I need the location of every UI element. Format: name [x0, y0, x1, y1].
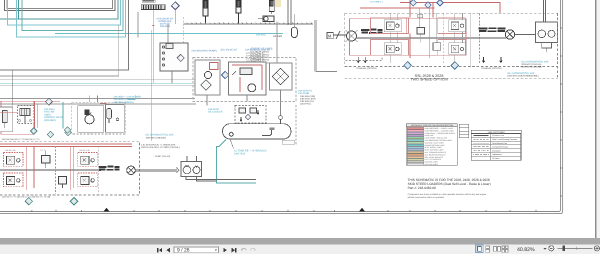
valve assembly V1 hatched body — [141, 5, 165, 10]
svg-text:TO PUMP (~): TO PUMP (~) — [370, 1, 383, 4]
svg-text:Drain/Return Line: Drain/Return Line — [492, 142, 507, 145]
svg-text:24B-3WL (HL): 24B-3WL (HL) — [300, 100, 314, 103]
MV1 spool rect — [240, 68, 252, 75]
svg-text:LINE PATTERNS: LINE PATTERNS — [488, 131, 505, 134]
pilot valve PV1 (top middle) — [42, 151, 51, 168]
twin pump box TP1 — [181, 162, 202, 177]
gauge G2 — [548, 30, 555, 37]
filter box FB1 — [106, 105, 125, 133]
drawing frame right border — [0, 0, 563, 214]
valve V1 label 24A-301C — [142, 0, 155, 2]
accumulator A1 capsule — [291, 27, 297, 38]
drive manifold label block — [98, 166, 119, 171]
shuttle valve diamond D1 — [171, 2, 179, 10]
shuttle diamond D6 blue — [222, 71, 229, 78]
svg-text:(24UH-R1): (24UH-R1) — [300, 103, 311, 106]
control valve CV1 — [18, 106, 34, 124]
toolbar: zoom dropdown caret — [544, 248, 547, 250]
CV1 port marks — [19, 120, 32, 122]
wire loop teal 2 — [8, 0, 121, 25]
svg-text:30W-40/T (24A/2AB): 30W-40/T (24A/2AB) — [521, 66, 541, 69]
svg-text:24A-30HA: 24A-30HA — [44, 108, 55, 111]
two-speed axle thick line — [357, 37, 507, 39]
svg-text:177-70: 177-70 — [40, 149, 46, 152]
heat exchanger box HE1 — [270, 63, 293, 90]
drive valve DV3 (bottom-left) — [4, 173, 24, 187]
color legend rows — [407, 127, 424, 165]
svg-text:(24B-306C): (24B-306C) — [44, 119, 56, 122]
svg-text:24A-30HB: 24A-30HB — [298, 92, 309, 95]
label top right of cluster (cyan) — [114, 96, 142, 104]
toolbar: zoom-in button — [594, 246, 599, 251]
svg-text:HX-1300: HX-1300 — [273, 35, 283, 38]
hand pump P3 — [258, 16, 274, 22]
ts drain diamond TD1 — [404, 62, 412, 70]
wire gray bus 2 — [0, 25, 119, 76]
charge block CB1 — [160, 43, 188, 71]
svg-text:HYD LINE: HYD LINE — [44, 111, 55, 114]
wire gray bus 1 — [0, 0, 128, 70]
drive valve DV2 (top-right) — [78, 152, 98, 166]
ts motor M3 — [505, 30, 514, 39]
wire from shuttle D1 down — [174, 9, 176, 24]
svg-text:10W-40 (2SL/2HL) 177-0007 (2SL: 10W-40 (2SL/2HL) 177-0007 (2SL/2HL) — [141, 146, 180, 149]
twin pump circle P8 — [193, 167, 200, 174]
cylinder C2 — [236, 0, 241, 24]
ts valve TV2 (bottom-left) — [371, 40, 409, 56]
svg-text:177-70737 (24L1): 177-70737 (24L1) — [246, 52, 264, 55]
ts drain diamond TD2 — [451, 62, 459, 70]
heat exchanger diamond F4 — [272, 68, 288, 84]
ts brake arrows right — [482, 57, 502, 63]
drain diamonds D4 D5 — [47, 131, 54, 138]
motor box M1 — [327, 33, 333, 39]
ts valve TV3 (top-right) — [438, 18, 466, 34]
drain diamond D7 — [25, 198, 32, 205]
gauge box GB1 — [536, 22, 558, 43]
filter element F2 capsule — [107, 108, 112, 123]
drive valve DV1 (top-left) — [4, 152, 24, 166]
main valve box MV1 — [229, 62, 267, 95]
svg-text:24H-7403: 24H-7403 — [234, 152, 246, 155]
drive enclosure dashed — [0, 141, 139, 195]
ts dashed gray verticals — [444, 14, 480, 65]
ts red verticals — [406, 8, 429, 58]
tank suction pipe — [262, 128, 275, 136]
pump box left — [78, 106, 104, 133]
svg-text:OIL COOLER: OIL COOLER — [208, 111, 223, 114]
MV1 pump circle P6 — [248, 84, 256, 92]
drain diamond D8 — [70, 198, 77, 205]
frame zone marker triangle left — [104, 208, 110, 212]
wire verticals above accumulator — [288, 0, 294, 27]
filter unit box FU1 — [195, 60, 220, 95]
frame zone ticks bottom — [32, 210, 536, 211]
CB1 top small valve — [166, 44, 173, 49]
wire vertical long to drive section — [151, 30, 153, 141]
cyan drop wire right — [128, 95, 135, 100]
wire V1 to CB1 — [167, 24, 169, 43]
red dash on box top — [100, 102, 106, 104]
svg-text:CONTROL VALVE: CONTROL VALVE — [44, 116, 63, 119]
red top rails — [0, 144, 132, 147]
wire loop teal 3 — [22, 0, 123, 31]
svg-text:Enclosure: Enclosure — [492, 149, 500, 152]
wire long teal horizontal — [55, 33, 283, 35]
teal diamond top 2 — [64, 127, 71, 134]
svg-text:24B-305 177-70 24B-305 177-: 24B-305 177-70 24B-305 177-70 24B-305 17… — [2, 196, 51, 199]
twin pump circle P7 — [183, 166, 191, 174]
FU1 filter diamond F3 — [201, 80, 211, 90]
svg-text:24B-3WL (24R): 24B-3WL (24R) — [300, 95, 315, 98]
breather B1 — [279, 116, 283, 124]
red wire verticals cluster — [0, 101, 37, 131]
ts manifold label block — [478, 27, 505, 32]
wire MV1 down — [246, 95, 248, 102]
CG1 check valves — [239, 108, 257, 113]
MV1 red interior lines — [232, 65, 262, 92]
shuttle diamond blue TS3 — [437, 0, 444, 6]
boundary chain line with ticks — [184, 23, 313, 24]
svg-text:NO FLOW LINES: NO FLOW LINES — [425, 163, 439, 166]
svg-text:24A-307B OIL LINE KIT: 24A-307B OIL LINE KIT — [245, 49, 271, 52]
drive axle thick line — [0, 169, 101, 171]
dashed gray verticals drive — [56, 146, 99, 194]
svg-text:SSL VALVE KIT: SSL VALVE KIT — [221, 49, 238, 52]
drive motor M2 — [127, 166, 136, 175]
red feed rails top — [360, 0, 500, 17]
CG1 arrows — [240, 110, 259, 121]
svg-text:24B-305B: 24B-305B — [160, 25, 171, 28]
shuttle diamond D2 — [46, 98, 53, 105]
vertical scrollbar edge — [595, 0, 597, 238]
hydraulic tank T1 — [223, 124, 292, 139]
toolbar: next-page button — [223, 248, 226, 253]
frame zone ticks right — [561, 28, 562, 196]
small label box under tank — [282, 140, 294, 144]
cylinder C1 — [203, 0, 208, 24]
color legend row texts — [425, 127, 457, 166]
pilot valve PV2 (bottom middle) — [59, 177, 67, 189]
CG1 diamond — [245, 114, 251, 120]
part number rows — [246, 52, 264, 66]
ts pilot valve TV5 (middle top) — [417, 28, 425, 35]
toolbar: two-page-continuous button — [502, 246, 508, 252]
svg-text:OIL (HYDROSTATIC) SAE: OIL (HYDROSTATIC) SAE — [507, 72, 535, 75]
svg-text:24B-305 (2B): 24B-305 (2B) — [5, 149, 16, 152]
shuttle diamond blue TS2 — [425, 2, 432, 9]
svg-text:20W-50/T (2SL/2LA): 20W-50/T (2SL/2LA) — [521, 63, 541, 66]
FU1 red top valve — [210, 63, 219, 70]
MV1 relief arrow — [233, 71, 237, 75]
cooler valve group box CG1 — [235, 106, 266, 124]
pump control label block — [361, 29, 383, 34]
drive valve DV4 (bottom-right) — [78, 173, 98, 187]
twin pump suction wires — [186, 156, 256, 181]
svg-text:9 / 26: 9 / 26 — [177, 248, 190, 254]
svg-text:TO BRAKE (OPTION): TO BRAKE (OPTION) — [481, 67, 502, 70]
svg-text:without conversation within or: without conversation within or operated. — [408, 196, 445, 199]
toolbar: prev-page button — [166, 248, 169, 253]
ts pilot valve TV6 (middle bottom) — [433, 43, 441, 50]
wire corner at x138 — [137, 12, 139, 38]
ts connector wires at valves — [390, 13, 462, 63]
svg-text:M: M — [328, 33, 331, 38]
solenoid block on pump — [84, 109, 89, 115]
tank strainer S1 — [229, 132, 233, 136]
svg-text:24A-3011: 24A-3011 — [256, 34, 267, 37]
cylinder C3 with highlight — [275, 0, 281, 7]
svg-text:TWO SPEED OPTION: TWO SPEED OPTION — [410, 78, 448, 82]
wire red bus 7 — [0, 100, 60, 102]
FU1 pump circle P5 — [204, 71, 211, 78]
ts enclosure right dashed edge — [557, 13, 559, 78]
ts pump group dashed box — [346, 56, 383, 61]
left edge component box — [0, 107, 13, 132]
ts valve TV4 (bottom-right) — [438, 40, 466, 56]
svg-text:HYDRAULIC CIRCUIT COLOR DESCRI: HYDRAULIC CIRCUIT COLOR DESCRIPTION — [411, 124, 454, 127]
ts valve TV1 (top-left) — [371, 18, 409, 34]
gauge G1 — [538, 30, 546, 38]
CB1 inner diamond — [177, 54, 184, 61]
svg-text:24B-37CD (HR): 24B-37CD (HR) — [300, 97, 316, 100]
pump shaft coupling — [135, 168, 179, 173]
toolbar: page number field — [174, 247, 219, 253]
top label row — [2, 138, 40, 141]
gear pump P4 circle — [85, 113, 94, 124]
wire loop cyan 4 — [17, 0, 126, 37]
port circle small — [116, 118, 119, 121]
gray divider band — [0, 238, 600, 245]
svg-text:Component Group: Component Group — [492, 146, 508, 149]
svg-text:INTERLOCK: INTERLOCK — [158, 20, 172, 23]
svg-text:10W-40TX (2/B2/2AB/B8/2/B8L): 10W-40TX (2/B2/2AB/B8/2/B8L) — [507, 75, 539, 78]
ts solid divider wire — [470, 13, 472, 66]
label control valve (cyan 4 lines) — [44, 108, 63, 122]
svg-text:Pilot / Load Sensing Pressure: Pilot / Load Sensing Pressure — [492, 138, 517, 141]
wire cyan bus 4 — [152, 9, 154, 83]
wire P3 to HE1 — [276, 22, 278, 64]
two-speed enclosure dashed — [344, 13, 346, 66]
toolbar: previous-view button (disabled) — [242, 248, 247, 250]
toolbar: two-page-view button — [494, 246, 501, 251]
svg-text:(OUTLET): (OUTLET) — [160, 23, 171, 26]
wire vertical into cluster — [12, 70, 14, 105]
svg-text:24B-305 (2B): 24B-305 (2B) — [79, 149, 90, 152]
red enclosure left — [1, 101, 34, 134]
wire loop dark gray inner — [7, 0, 113, 9]
svg-text:24A-305A — 24A-3A 305B: 24A-305A — 24A-3A 305B — [114, 96, 142, 99]
red wire verticals drive — [27, 147, 74, 191]
pump group outer dashed box PG1 — [72, 102, 126, 134]
toolbar: next-view button (disabled) — [251, 248, 256, 250]
toolbar: page field dropdown caret — [215, 249, 218, 251]
toolbar background — [0, 245, 600, 254]
enclosure dashed vertical near cylinders — [183, 17, 185, 60]
color legend table — [406, 124, 457, 166]
SCHEMATIC CONTENT — [0, 0, 563, 214]
wire gray bus 8 — [0, 103, 196, 105]
parts list rows — [250, 51, 269, 65]
label HYD VALVE KIT (blue) — [157, 17, 174, 28]
pump group enclosure dashes — [193, 58, 296, 102]
ts solenoid tiny — [418, 14, 423, 18]
svg-text:All Lines: All Lines — [492, 157, 499, 160]
wire loop teal 1 — [0, 0, 118, 19]
toolbar: zoom-out button — [549, 246, 554, 251]
tank return wire teal — [217, 140, 257, 184]
shuttle diamond blue TS1 — [410, 0, 417, 6]
wire HE1 to breather — [280, 90, 282, 116]
svg-text:OIL (HYDROSTATIC) SAE: OIL (HYDROSTATIC) SAE — [521, 61, 549, 64]
svg-text:Components are shown installed: Components are shown installed on a full… — [408, 193, 487, 196]
teal diamond top 1 — [30, 128, 37, 135]
red tick on wire — [152, 24, 155, 27]
svg-text:...PUMP (24A-30): ...PUMP (24A-30) — [153, 155, 170, 158]
svg-text:OIL (HYDROSTATIC) SAE: OIL (HYDROSTATIC) SAE — [146, 134, 175, 137]
tank leader line — [230, 139, 234, 149]
svg-text:24A-305A (HYD PUMP): 24A-305A (HYD PUMP) — [191, 50, 217, 53]
toolbar: continuous-view button — [486, 246, 490, 252]
svg-text:Adjustment: Adjustment — [492, 153, 502, 156]
gauge drains — [542, 43, 552, 53]
svg-text:Pressure Line: Pressure Line — [492, 134, 504, 137]
svg-text:40.82%: 40.82% — [517, 247, 535, 253]
wire loop dark gray — [5, 0, 116, 11]
tank group enclosure — [282, 105, 296, 144]
small aux table — [459, 124, 469, 138]
toolbar: zoom slider thumb — [563, 245, 565, 251]
wire CB1 down — [171, 71, 173, 83]
wire gray bus 5 — [0, 85, 195, 87]
ts outer red enclosure — [350, 19, 467, 55]
toolbar: zoom slider track — [558, 247, 593, 249]
toolbar: first-page button — [157, 248, 162, 253]
svg-text:24B-305 24B-305 177-70 2: 24B-305 24B-305 177-70 24B-305 177-70 — [2, 138, 40, 141]
svg-text:10W-40/T (24B/2AB): 10W-40/T (24B/2AB) — [146, 136, 166, 139]
hydrostatic pump HP1 — [346, 30, 358, 42]
wire gray bus 3 — [0, 79, 195, 81]
wires up from pump box — [89, 96, 91, 103]
svg-text:1.5L (HYDRAULIC + LOWER) SAE: 1.5L (HYDRAULIC + LOWER) SAE — [141, 144, 176, 147]
toolbar: last-page button — [232, 248, 237, 253]
toolbar: single-page-view button (selected) — [476, 245, 484, 253]
svg-text:177-7099E (24L1): 177-7099E (24L1) — [246, 57, 264, 60]
sheet divider vertical wire — [316, 20, 337, 72]
gauge wires up — [515, 0, 546, 35]
teal wire left of pump box — [62, 102, 64, 129]
motor shaft link — [333, 31, 346, 39]
wire gray bus 6 — [0, 98, 195, 100]
svg-text:LINES: LINES — [44, 113, 51, 116]
note text block — [408, 178, 491, 190]
frame zone marker triangle right — [359, 208, 365, 212]
svg-text:TO BRAKE (OPTION): TO BRAKE (OPTION) — [356, 67, 377, 70]
line patterns table — [471, 130, 521, 160]
svg-text:Part #: 218-6482-00: Part #: 218-6482-00 — [408, 186, 437, 190]
ts brake arrows left — [357, 57, 367, 63]
wire FU1 to cooler — [206, 95, 208, 106]
svg-text:HYD VALVE KIT: HYD VALVE KIT — [157, 17, 174, 20]
svg-text:24B-3WL (24B/2HL): 24B-3WL (24B/2HL) — [114, 101, 135, 104]
